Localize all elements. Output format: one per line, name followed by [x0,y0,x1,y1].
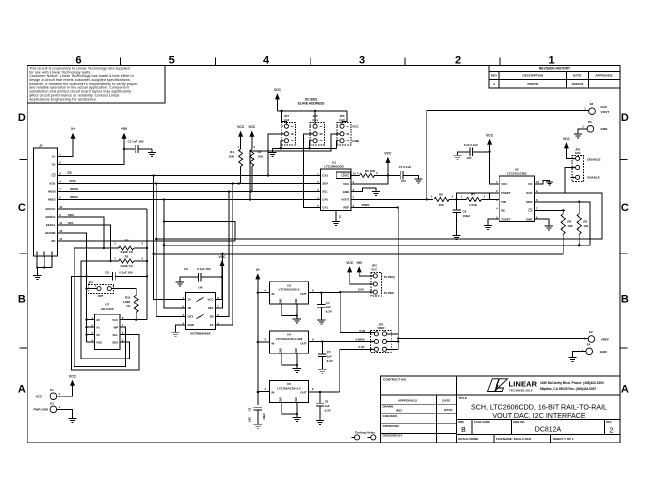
revision history table [489,66,620,89]
svg-text:A2: A2 [96,333,100,337]
svg-text:Applications Engineering for a: Applications Engineering for assistance. [29,97,97,101]
svg-text:FILENAME: 812A-2.SCH: FILENAME: 812A-2.SCH [496,437,532,441]
svg-text:09/16/04: 09/16/04 [572,82,584,86]
svg-text:CS: CS [67,171,71,175]
svg-text:VCC: VCC [237,125,245,129]
regulator U5 LT1790ACS6-2.5 [270,380,309,402]
svg-text:E5: E5 [588,120,592,124]
U1 GND pin ground [351,188,376,192]
svg-text:GND: GND [600,350,608,354]
svg-text:C10 0.1uF: C10 0.1uF [464,143,478,147]
svg-text:SDA: SDA [68,213,75,217]
svg-text:MOSI: MOSI [70,187,78,191]
svg-text:6.3V: 6.3V [326,310,332,314]
svg-text:SCALE NONE: SCALE NONE [458,437,478,441]
Linear Technology logo [488,379,538,393]
svg-text:CA2: CA2 [322,174,328,178]
op-amp U1 LTC2606CDD [320,169,351,211]
wire U7 SCL loop [71,276,139,370]
svg-text:LDAC: LDAC [341,174,350,178]
ADC U2 LTC2421CMS [499,176,534,221]
svg-text:16V: 16V [467,156,472,160]
svg-text:CA1: CA1 [322,206,328,210]
svg-text:REF: REF [343,206,349,210]
proprietary notice box [27,66,165,104]
svg-text:10K: 10K [258,155,264,159]
svg-text:1630 McCarthy Blvd. Phone: (4: 1630 McCarthy Blvd. Phone: (408)432-1900 [540,381,604,385]
svg-text:C5: C5 [327,350,331,354]
svg-text:OUT: OUT [300,292,306,296]
svg-text:R2: R2 [125,254,129,258]
wire jumper ground rail [281,141,284,149]
svg-text:B: B [461,427,466,434]
svg-text:C8: C8 [105,270,109,274]
svg-text:CA0: CA0 [322,198,328,202]
svg-text:OUT: OUT [300,341,306,345]
resistor R10 [112,289,137,296]
svg-text:E6: E6 [590,102,594,106]
svg-text:+5V: +5V [121,127,128,131]
wire JP3 bottom pin [570,176,575,178]
svg-text:CHECKED: CHECKED [383,414,397,418]
svg-text:100: 100 [438,203,443,207]
svg-text:E3: E3 [50,401,54,405]
svg-text:TECHNOLOGY: TECHNOLOGY [509,388,533,392]
VCC arrow C10 [487,139,492,145]
svg-text:GND: GND [296,348,298,353]
wire U1 VOUT [351,198,433,200]
wire U2 FSSET [489,193,499,200]
svg-text:SLAVE ADDRESS: SLAVE ADDRESS [298,102,325,106]
ground at C7 [414,178,422,180]
svg-text:CA0: CA0 [339,118,345,122]
ground at C10 [454,154,462,156]
svg-text:5.0V: 5.0V [358,288,364,292]
svg-text:LT1790ACS6-2.5: LT1790ACS6-2.5 [277,386,301,390]
svg-text:J?: J? [39,144,43,148]
svg-text:EESDA: EESDA [46,215,57,219]
svg-text:4: 4 [263,55,270,67]
wire U5 GND pins [282,403,297,415]
U2 FO ground [534,180,549,184]
svg-text:VCC: VCC [486,134,494,138]
svg-text:GND: GND [281,397,283,402]
svg-text:GND: GND [281,348,283,353]
ground at C5 [318,368,326,370]
svg-text:VOUT: VOUT [601,110,610,114]
svg-text:R3: R3 [125,239,129,243]
svg-text:VREF: VREF [601,337,609,341]
svg-text:DESIGNED BY: DESIGNED BY [383,434,403,438]
V+ arrow J1 [71,133,76,139]
svg-text:D: D [621,112,629,124]
svg-text:OUT: OUT [300,391,306,395]
svg-text:ENABLE: ENABLE [587,175,599,179]
svg-text:DWG NO.: DWG NO. [513,420,525,424]
svg-text:5V REQ: 5V REQ [384,275,396,279]
svg-text:LINEAR: LINEAR [509,380,538,389]
svg-text:SCH, LTC2606CDD, 16-BIT RAIL-T: SCH, LTC2606CDD, 16-BIT RAIL-TO-RAIL [471,404,607,412]
svg-text:VREF: VREF [377,326,385,330]
svg-text:5: 5 [169,55,175,67]
svg-text:C2 1uF 16V: C2 1uF 16V [128,140,144,144]
svg-text:CA2: CA2 [284,118,290,122]
ground at E5 [578,129,587,134]
top ruler ticks [119,57,121,65]
svg-text:24LC025: 24LC025 [101,307,114,311]
title block outline [381,376,621,443]
svg-text:SCK: SCK [526,191,533,195]
wire VREF to E2 [398,337,588,339]
wire U7 WP loop [74,248,125,366]
VCC arrow C3 [220,260,225,266]
svg-text:C4: C4 [326,301,330,305]
svg-text:0.1uF 16V: 0.1uF 16V [119,270,133,274]
svg-text:VREF: VREF [361,203,369,207]
U2 ZSSET ground [488,219,499,225]
svg-text:VCC: VCC [501,182,508,186]
svg-text:IN: IN [272,341,275,345]
svg-text:1uF: 1uF [325,404,330,408]
svg-text:LT1790ACS6-4.096: LT1790ACS6-4.096 [276,337,303,341]
side zone ticks [20,159,28,161]
svg-text:VCC: VCC [352,124,359,128]
wire slave address VCC rail [277,110,347,112]
svg-text:6: 6 [75,55,81,67]
svg-text:SCK: SCK [49,182,56,186]
svg-text:7.04K: 7.04K [469,203,478,207]
VCC arrow E1 [70,380,75,386]
svg-text:IN: IN [272,292,275,296]
svg-text:MISO: MISO [70,195,78,199]
wire U6 VCC riser [216,277,223,299]
svg-text:D: D [18,112,26,124]
svg-text:VCC: VCC [36,394,43,398]
svg-text:IN: IN [272,391,275,395]
svg-text:VCC: VCC [371,267,377,271]
svg-text:VCC: VCC [274,88,282,92]
svg-text:E1: E1 [50,388,54,392]
svg-text:VCC: VCC [248,125,256,129]
svg-text:6.3V: 6.3V [325,408,331,412]
svg-text:100pf: 100pf [463,214,471,218]
svg-text:R9: R9 [583,219,587,223]
svg-text:2B: 2B [210,315,214,319]
VCC arrow JP3 [564,142,569,148]
svg-text:C6: C6 [325,400,329,404]
svg-text:2: 2 [455,55,461,67]
svg-text:R1: R1 [230,150,234,154]
svg-text:MOSI: MOSI [48,190,56,194]
svg-text:VCC: VCC [69,375,77,379]
ground at C1 [254,423,262,425]
wire DAC VOUT to E6 [427,111,589,200]
svg-text:1uF: 1uF [326,305,331,309]
svg-text:R5 10K: R5 10K [365,169,376,173]
sheet border frame [27,66,620,443]
svg-text:2.5V: 2.5V [358,345,364,349]
svg-text:SHEET 1 OF 1: SHEET 1 OF 1 [553,437,574,441]
svg-text:CS: CS [528,209,532,213]
svg-text:VCC: VCC [112,318,119,322]
svg-text:U6: U6 [199,285,203,289]
svg-text:V+: V+ [256,268,260,272]
ground at C3 [176,281,184,283]
wire U4 GND pins [282,353,297,365]
svg-text:1B: 1B [187,306,191,310]
svg-text:R8: R8 [567,219,571,223]
wire U6 2B riser [216,192,230,317]
ground at C4 [317,319,325,321]
svg-text:WP: WP [114,325,119,329]
wire JP3 middle pin [565,168,575,193]
wire SCK bus to U2 [156,193,602,239]
svg-text:VCC: VCC [207,298,214,302]
ground at U4 [293,367,301,369]
approvals table [381,403,457,405]
svg-text:SDA: SDA [322,182,329,186]
ground at C9 [453,234,461,236]
svg-text:1%: 1% [126,304,131,308]
wire U6 GND ground [176,325,186,332]
wire SDO bus to U2 [164,202,590,245]
wire EEGND net [58,233,87,342]
ground at C2 [148,152,156,154]
svg-text:C9: C9 [463,209,467,213]
svg-text:3: 3 [359,55,365,67]
svg-text:VCC: VCC [384,152,392,156]
svg-text:6.3V: 6.3V [327,359,333,363]
svg-text:SDA: SDA [112,340,119,344]
wire U7 A0 A1 A2 VSS [87,319,95,321]
svg-text:GND: GND [296,397,298,402]
V+ arrow regulators [255,273,260,279]
svg-text:VCC: VCC [563,137,571,141]
svg-text:VCC: VCC [219,255,227,259]
wire U7 VCC [120,319,147,321]
svg-text:PWR GND: PWR GND [34,408,49,412]
svg-text:VCC: VCC [346,261,354,265]
ground at U5 [293,416,301,418]
svg-text:1: 1 [548,55,554,67]
svg-text:LTC2421CMS: LTC2421CMS [507,172,527,176]
svg-text:DATE:: DATE: [573,74,582,78]
svg-text:2: 2 [610,428,614,435]
ground at jumpers [268,151,276,153]
wire inner loop [164,222,235,242]
ground below J1 [33,274,41,276]
svg-text:SCL: SCL [113,333,119,337]
svg-text:VSS: VSS [96,340,102,344]
svg-text:A1: A1 [96,325,100,329]
svg-text:ZSSET: ZSSET [501,217,511,221]
ground at E4 [572,351,586,357]
svg-text:CAGE CODE: CAGE CODE [474,420,490,424]
wire U3 OUT 5.0V [309,292,341,294]
svg-text:VOUT: VOUT [341,198,349,202]
U1 VCC pin wire [351,175,388,183]
svg-text:APPROVED:: APPROVED: [595,74,613,78]
ground at U3 [293,318,301,320]
+5V arrow JP2 [357,266,362,272]
svg-text:GND: GND [526,217,532,221]
svg-text:LT1790ACS6-5: LT1790ACS6-5 [279,288,300,292]
U6 switch glyphs [197,298,204,302]
svg-text:C: C [621,202,629,214]
svg-text:GND: GND [296,298,298,303]
wire U4 OUT 4.096V [309,341,323,343]
wire NC net [58,240,236,242]
wire U5 OUT 2.5V [309,391,340,393]
svg-text:1uF: 1uF [327,355,332,359]
U1 pin 11 ground [335,211,337,222]
analog switch U6 NC7WB66K8X [186,293,216,330]
wire U3 GND pins [282,304,297,316]
U2 GND ground [534,219,548,226]
svg-text:A: A [18,384,26,396]
svg-text:+5V: +5V [356,261,363,265]
wire U2 VCC [490,152,500,184]
svg-text:9/7/04: 9/7/04 [444,408,453,412]
svg-text:SCK: SCK [69,179,76,183]
+5V arrow J1 [122,133,127,139]
svg-text:C7 0.1uF: C7 0.1uF [399,165,412,169]
wire CA0 to U1 [250,134,340,200]
wire U6 2A riser [216,184,233,326]
svg-text:MISO: MISO [48,198,56,202]
ground at E3 [57,409,73,418]
svg-text:LTC2606CDD: LTC2606CDD [324,165,344,169]
svg-text:GND: GND [343,190,349,194]
ground at C6 [316,419,324,421]
svg-text:EEGND: EEGND [45,231,55,235]
svg-text:SIZE: SIZE [458,420,464,424]
svg-text:10K: 10K [228,155,234,159]
svg-text:16V: 16V [401,179,406,183]
svg-text:ADC: ADC [575,151,581,155]
svg-text:A: A [621,384,629,396]
svg-text:FSSET: FSSET [501,191,511,195]
svg-text:10K: 10K [567,224,573,228]
svg-text:VIN: VIN [501,200,506,204]
svg-text:V+: V+ [52,155,56,159]
svg-text:NC7WB66K8X: NC7WB66K8X [190,332,210,336]
svg-text:0.1uF 16V: 0.1uF 16V [197,267,211,271]
svg-text:5V REF: 5V REF [384,291,395,295]
svg-text:4.096V: 4.096V [355,337,365,341]
wire CS bus to U2 [154,234,564,253]
svg-text:4.99K 1%: 4.99K 1% [120,264,133,268]
VCC arrow slave address [275,93,280,99]
svg-text:E4: E4 [587,342,591,346]
wire CA2 to U1 [268,134,284,176]
regulator U3 LT1790ACS6-5 [270,282,309,304]
svg-text:C1: C1 [248,407,252,411]
svg-text:SCL: SCL [68,221,74,225]
svg-text:Milpitas, CA 95035 Fax: (408: Milpitas, CA 95035 Fax: (408)434-0507 [540,387,597,391]
connector J1 [34,148,58,256]
svg-text:OPT: OPT [98,294,104,298]
svg-text:REVISION HISTORY: REVISION HISTORY [539,67,571,71]
svg-text:DESCRIPTION: DESCRIPTION [523,74,544,78]
svg-text:WCI: WCI [396,408,402,412]
svg-text:SCL: SCL [322,190,328,194]
svg-text:TITLE: TITLE [459,396,467,400]
svg-text:VCC: VCC [343,182,350,186]
svg-text:JP7: JP7 [88,280,93,284]
svg-text:EEVCC: EEVCC [46,207,57,211]
svg-text:DATE: DATE [442,399,450,403]
svg-text:V+: V+ [71,127,75,131]
svg-text:CS: CS [51,174,55,178]
svg-text:EESCL: EESCL [46,223,56,227]
svg-text:GND: GND [601,127,609,131]
svg-text:B: B [18,294,26,306]
svg-text:OE1: OE1 [208,306,214,310]
svg-text:REV: REV [491,74,497,78]
wire U6 OE1 riser [216,254,223,308]
svg-text:R6: R6 [439,192,443,196]
svg-text:DRAWN: DRAWN [383,405,394,409]
svg-text:10uF: 10uF [262,413,266,420]
VCC arrow R1 [238,131,243,137]
svg-text:REV: REV [606,420,612,424]
svg-text:DAC: DAC [601,105,608,109]
svg-text:CA1: CA1 [312,118,318,122]
size cage dwg rev row [456,419,620,421]
wire JP1 right pins to VREF [387,333,399,335]
svg-text:E2: E2 [589,330,593,334]
svg-text:CONTRACT NO.: CONTRACT NO. [383,378,407,382]
svg-text:GND: GND [281,298,283,303]
VCC arrow JP2 [347,266,352,272]
wire CA1 to U1 [303,134,320,208]
svg-text:100: 100 [583,224,588,228]
wire CS drop to U6 1A [154,176,186,300]
wire SDA drop to U6 OE2 [156,184,185,317]
VCC arrow R4 [249,131,254,137]
svg-text:5V: 5V [52,163,56,167]
svg-text:OE2: OE2 [187,315,193,319]
svg-text:DISABLE: DISABLE [587,157,600,161]
EEPROM U7 24LC025 [94,314,120,349]
svg-text:A0: A0 [96,318,100,322]
svg-text:16V: 16V [248,417,252,422]
svg-text:Tooling Holes: Tooling Holes [355,430,376,434]
svg-text:SDO: SDO [526,200,533,204]
svg-text:PROTO: PROTO [527,82,538,86]
svg-text:C: C [18,202,26,214]
svg-text:GND: GND [187,323,193,327]
svg-text:GND: GND [352,139,360,143]
svg-text:B: B [621,294,629,306]
svg-text:DC812A: DC812A [535,426,562,433]
svg-text:VOUT DAC, I2C INTERFACE: VOUT DAC, I2C INTERFACE [492,412,586,420]
wire U7 SDA loop [81,261,130,359]
regulator U4 LT1790ACS6-4.096 [270,331,309,353]
wire EEVCC net [58,208,148,210]
svg-text:C3: C3 [184,267,188,271]
svg-text:APPROVED: APPROVED [383,424,399,428]
wire MISO drop to U6 1B [164,200,186,309]
svg-text:APPROVALS: APPROVALS [398,399,417,403]
scale filename sheet row [493,435,495,443]
VCC arrow R5 [385,157,390,163]
